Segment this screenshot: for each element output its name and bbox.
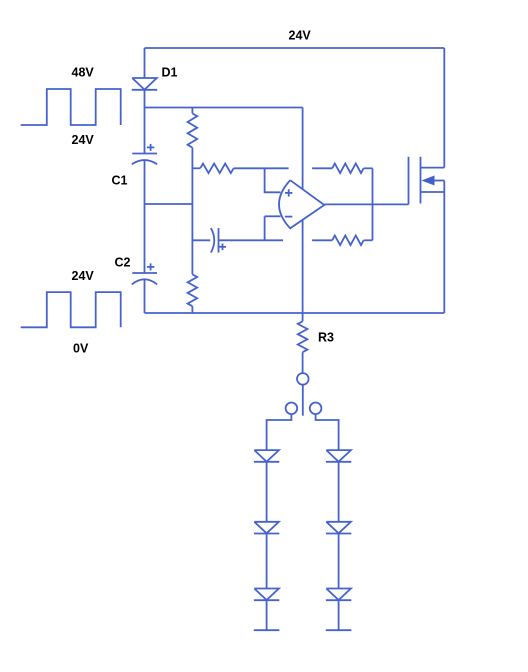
wire 24V2 bus (145, 107, 303, 109)
wire C3 to -input node (219, 239, 284, 241)
wire source to bottom bus (443, 192, 445, 313)
capacitor C3 (192, 228, 226, 253)
node connector pin left (286, 403, 298, 415)
LED D2 (254, 450, 279, 462)
resistor feedback top (312, 164, 372, 174)
wire feedback vertical (372, 168, 374, 240)
node input waveform 2 (21, 292, 121, 327)
wire (338, 462, 340, 522)
node input waveform 1 (21, 89, 121, 125)
svg-text:24V: 24V (72, 133, 95, 147)
LED D5 (326, 450, 351, 462)
wire +input drop (265, 168, 281, 192)
wire left column top (bus to D1 anode) (144, 48, 146, 78)
wire C1 to mid junction to C2 (144, 160, 146, 273)
svg-text:D1: D1 (162, 66, 178, 80)
wire bus to R1 (191, 108, 193, 114)
node connector pin right (310, 403, 322, 415)
wire (338, 600, 340, 630)
wire R1 bottom to R2 top (191, 148, 193, 275)
wire drain to top bus (443, 48, 445, 168)
op-amp U1 (279, 180, 324, 228)
wire top 24V bus (145, 47, 445, 49)
resistor R3 (298, 313, 308, 373)
svg-text:R3: R3 (318, 331, 334, 345)
node connector pin top (297, 373, 309, 385)
capacitor C1 (132, 144, 157, 164)
wire op-amp output to gate (324, 203, 408, 205)
wire -input drop (264, 216, 266, 240)
resistor R2 (188, 274, 198, 306)
svg-text:0V: 0V (73, 342, 89, 356)
diode D1 (132, 78, 157, 90)
wire C2 to bottom bus (144, 280, 146, 313)
resistor feedback bottom (312, 236, 372, 246)
wire mid junction to resistor column (145, 203, 193, 205)
svg-text:C1: C1 (112, 174, 128, 188)
wire (266, 462, 268, 522)
node right chain terminal (326, 629, 352, 631)
wire +input net horizontal (234, 167, 289, 169)
LED D6 (326, 522, 351, 534)
LED D7 (326, 589, 351, 601)
wire bottom bus (145, 312, 445, 314)
svg-text:24V: 24V (289, 29, 312, 43)
wire D1 cathode to C1 (144, 90, 146, 154)
resistor R1 (188, 113, 198, 147)
wire pin to plug (302, 385, 304, 416)
wire right LED branch top (316, 414, 339, 450)
wire R2 bottom to bus (191, 306, 193, 313)
resistor to +input (mid horizontal) (192, 164, 233, 174)
svg-text:C2: C2 (115, 256, 131, 270)
LED D3 (254, 522, 279, 534)
capacitor C2 (132, 263, 157, 284)
svg-text:24V: 24V (72, 269, 95, 283)
svg-text:48V: 48V (72, 66, 95, 80)
transistor Q1 MOSFET (409, 157, 445, 205)
wire (266, 600, 268, 630)
wire op-amp top supply (302, 108, 304, 314)
wire (266, 534, 268, 589)
LED D4 (254, 589, 279, 601)
wire (338, 534, 340, 589)
wire -input stub (265, 215, 281, 217)
node left chain terminal (254, 629, 280, 631)
wire left LED branch top (267, 414, 292, 450)
